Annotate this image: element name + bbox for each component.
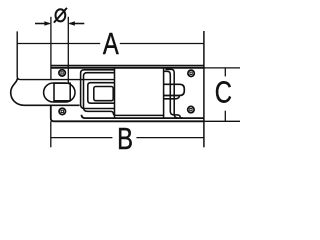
central pad right edge (163, 68, 165, 118)
lever outline: tip and bottom edge (11, 78, 80, 105)
plate bottom line upper (82, 115, 204, 118)
middle cap rect (88, 83, 115, 104)
rivet top-left (59, 70, 65, 76)
bail rect in slot (54, 83, 70, 101)
bail right lower line (164, 96, 180, 99)
diameter symbol (54, 8, 67, 23)
rivet bottom-left (59, 108, 65, 114)
C tick bottom (224, 111, 226, 122)
C bottom extension line (204, 120, 240, 122)
dimension line B (51, 137, 113, 139)
J hook outer (165, 69, 178, 118)
dim arrow left of diameter (35, 21, 51, 26)
dimension line A (17, 43, 100, 45)
extension line right shared A/B (plate right edge) (203, 31, 205, 147)
dim arrow right of diameter (68, 21, 84, 26)
J hook inner (164, 71, 183, 118)
bail right end (164, 84, 185, 95)
plate top back line (51, 65, 204, 67)
plate bottom line lower with corner (51, 105, 204, 121)
central pad left edge (114, 68, 116, 118)
svg-text:B: B (117, 121, 133, 156)
extension line diameter left (50, 17, 52, 80)
C top extension line (204, 67, 240, 69)
extension line A left, corner into lever top edge (17, 31, 114, 79)
C tick top (224, 68, 226, 77)
keeper outer left vertical and top line (81, 70, 115, 109)
rivet top-right (188, 70, 194, 76)
extension line diameter right (67, 17, 69, 84)
svg-text:A: A (103, 26, 120, 61)
plate outline top/left (51, 67, 204, 69)
rivet bottom-right (188, 106, 194, 112)
svg-text:C: C (215, 74, 232, 109)
inner small rect (94, 87, 113, 101)
keeper inner left vertical and bottom step (84, 73, 164, 116)
extension line B left (50, 121, 52, 147)
oval slot in lever (44, 83, 75, 102)
